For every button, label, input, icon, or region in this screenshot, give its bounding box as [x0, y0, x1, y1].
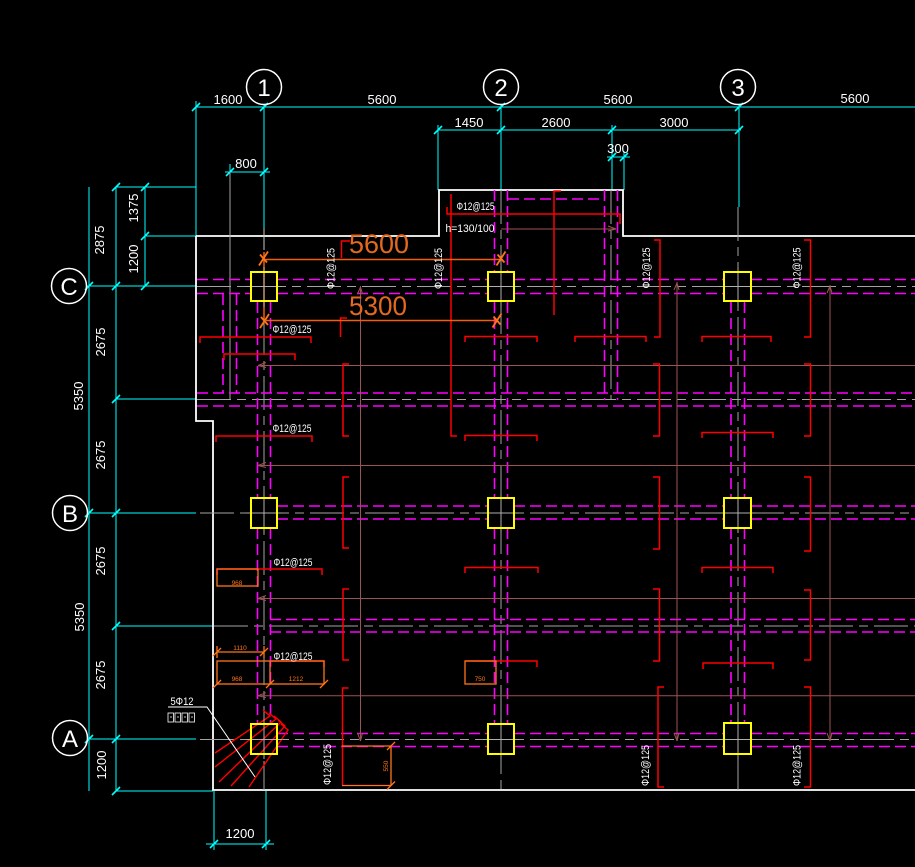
svg-text:1200: 1200	[94, 751, 109, 780]
resistor bracket C 660	[654, 240, 660, 337]
svg-text:2675: 2675	[93, 441, 108, 470]
node axis circle 2	[484, 70, 519, 105]
diode hat g3 663	[703, 663, 773, 669]
node axis circle A	[53, 721, 88, 756]
svg-text:h=130/100: h=130/100	[446, 223, 495, 235]
wire grid A line	[87, 738, 196, 740]
capacitor rect1	[217, 569, 258, 586]
node beam grid1 left	[257, 302, 259, 724]
resistor bracket mid1 343	[343, 364, 349, 436]
wire maroon v1	[360, 286, 362, 741]
wire red vertical 451	[451, 194, 457, 436]
wire 300 dim line	[607, 156, 630, 158]
wire second dim line	[438, 129, 741, 131]
red rebar symbols	[200, 191, 811, 787]
resistor bracket mid2 659	[653, 589, 660, 661]
diode hat 661	[270, 661, 324, 667]
wire grid B line	[87, 512, 196, 514]
node column B1	[251, 498, 277, 528]
node beam grid3 left	[730, 302, 732, 723]
wire left tick mid1	[116, 398, 196, 400]
svg-text:2675: 2675	[93, 661, 108, 690]
wire 800 dim line	[225, 171, 270, 173]
node X mark b	[497, 252, 506, 266]
node center line beam610	[610, 190, 612, 400]
svg-text:3: 3	[731, 75, 744, 102]
node center line B	[200, 512, 915, 514]
diode hat g2 336	[465, 337, 537, 343]
wire grid 3 extension	[738, 104, 740, 207]
wire extension x438	[437, 125, 439, 190]
node cjk chars	[168, 713, 195, 722]
svg-text:Φ12@125: Φ12@125	[273, 423, 312, 435]
node column C3	[724, 272, 751, 301]
node axis circle 3	[721, 70, 756, 105]
svg-text:550: 550	[383, 760, 390, 771]
node column A2	[488, 724, 514, 754]
node beam grid2 left	[494, 190, 496, 724]
resistor bracket A 342	[343, 688, 349, 785]
wire extension x196	[195, 101, 197, 236]
svg-text:1600: 1600	[214, 92, 243, 107]
wire extension x230	[229, 164, 231, 176]
node center line grid1	[263, 321, 265, 790]
svg-text:2675: 2675	[93, 328, 108, 357]
dimension lines cyan	[86, 101, 915, 850]
wire grid1 drop	[263, 252, 265, 321]
capacitor square 550	[342, 742, 395, 790]
node column C1	[251, 272, 277, 301]
wire bottom 1200 dim line	[206, 843, 274, 845]
dimension ticks	[85, 103, 743, 848]
node center line C	[197, 286, 915, 288]
svg-text:Φ12@125: Φ12@125	[326, 248, 338, 289]
capacitor rect2	[217, 661, 324, 684]
node beam B bottom	[277, 518, 915, 520]
svg-text:Φ12@125: Φ12@125	[792, 745, 804, 786]
capacitor rect3	[465, 661, 496, 684]
diode hat g3 336	[702, 337, 771, 343]
node beam 610 left	[604, 190, 606, 400]
wire maroon v2	[676, 282, 678, 741]
svg-text:1200: 1200	[126, 245, 141, 274]
svg-text:1200: 1200	[226, 826, 255, 841]
svg-text:Φ12@125: Φ12@125	[792, 248, 804, 289]
wire extension x612	[611, 125, 613, 190]
node beam grid1 right	[270, 302, 272, 724]
resistor bracket C 810	[804, 240, 811, 337]
node beam 610 right	[617, 190, 619, 400]
wire grid C line	[86, 285, 197, 287]
svg-text:C: C	[60, 274, 77, 301]
node center line grid2	[500, 190, 502, 790]
node column center crosses	[246, 267, 756, 759]
resistor bracket mid2 810	[804, 590, 811, 660]
node beam mid2 bottom	[270, 631, 915, 633]
white rebar labels	[171, 201, 804, 786]
node center line grid3	[737, 207, 739, 790]
wire left dim line x89	[88, 187, 90, 791]
node beam C top	[197, 279, 915, 281]
node beam C bottom	[197, 293, 915, 295]
node axis circle C	[52, 269, 87, 304]
wire left dim line x145	[144, 187, 146, 286]
node beam 230 right	[236, 294, 238, 393]
node center line beam230	[229, 172, 231, 400]
slab outline	[196, 190, 915, 790]
svg-text:Φ12@125: Φ12@125	[457, 201, 495, 213]
wire maroon h1	[258, 365, 915, 367]
svg-text:Φ12@125: Φ12@125	[274, 557, 313, 569]
svg-text:750: 750	[475, 676, 486, 683]
wire maroon h3	[258, 598, 915, 600]
maroon distribution lines	[258, 226, 915, 741]
node rect2 arrows	[213, 680, 328, 688]
svg-text:5350: 5350	[71, 382, 86, 411]
wire slab outline	[196, 190, 915, 790]
diode hat g3 432	[702, 433, 773, 439]
node beam A top	[277, 733, 915, 735]
resistor bracket B 343	[343, 477, 349, 548]
wire left tick 2875 top	[116, 186, 196, 188]
svg-text:5Φ12: 5Φ12	[171, 696, 194, 708]
node X mark a	[259, 252, 268, 266]
dimension texts	[71, 91, 869, 841]
svg-text:Φ12@125: Φ12@125	[433, 248, 445, 289]
svg-text:800: 800	[235, 156, 257, 171]
svg-text:Φ12@125: Φ12@125	[640, 745, 652, 786]
diode hat g2 435	[465, 436, 537, 442]
wire extension x624	[623, 151, 625, 190]
wire maroon bump	[501, 228, 616, 230]
capacitor gamma 5300	[341, 318, 348, 337]
node column A1	[251, 724, 277, 754]
wire maroon v3	[829, 285, 831, 741]
svg-text:2: 2	[494, 75, 507, 102]
svg-text:300: 300	[607, 141, 629, 156]
svg-text:968: 968	[232, 676, 243, 683]
node beam B top	[277, 505, 915, 507]
svg-text:5600: 5600	[368, 92, 397, 107]
node beam grid3 right	[744, 302, 746, 723]
wire red bump corner	[554, 191, 561, 315]
capacitor dim 1110	[213, 646, 268, 658]
svg-text:Φ12@125: Φ12@125	[641, 248, 653, 289]
resistor bracket A 810	[804, 687, 811, 787]
svg-text:Φ12@125: Φ12@125	[322, 744, 334, 785]
wire 5300 line	[266, 320, 497, 322]
grid bubbles	[52, 70, 756, 756]
svg-text:2875: 2875	[92, 226, 107, 255]
wire red bump line	[447, 207, 620, 224]
resistor bracket B 659	[653, 477, 660, 549]
svg-text:5600: 5600	[841, 91, 870, 106]
wire left tick 1375	[145, 235, 196, 237]
svg-text:5600: 5600	[604, 92, 633, 107]
node beam grid2 right	[507, 190, 509, 724]
transistor corner fan	[215, 710, 288, 787]
node X mark c	[260, 314, 269, 328]
capacitor gamma 5600	[342, 241, 351, 258]
diode hat 354	[224, 354, 295, 360]
node column A3	[724, 723, 751, 754]
diode hat b610 336	[575, 337, 646, 343]
svg-text:1: 1	[257, 75, 270, 102]
node beam mid2 top	[270, 619, 915, 621]
wire left tick bottom	[116, 790, 213, 792]
svg-text:5600: 5600	[349, 229, 409, 259]
node beam A bottom	[277, 746, 915, 748]
node axis circle 1	[247, 70, 282, 105]
wire top dim line	[196, 106, 915, 108]
svg-text:1450: 1450	[455, 115, 484, 130]
node column B2	[488, 498, 514, 528]
wire bottom extension x214	[213, 791, 215, 850]
node beam 230 left	[222, 294, 224, 393]
node center line A	[200, 739, 915, 741]
svg-text:B: B	[62, 501, 78, 528]
resistor bracket mid1 810	[804, 364, 811, 436]
capacitor rect2 divider	[269, 661, 271, 684]
svg-text:A: A	[62, 726, 78, 753]
svg-text:1375: 1375	[126, 194, 141, 223]
svg-text:2675: 2675	[93, 547, 108, 576]
svg-text:5300: 5300	[349, 291, 407, 321]
node beam mid1 top	[197, 392, 915, 394]
diode hat g2 661	[465, 661, 537, 667]
svg-text:1212: 1212	[289, 676, 304, 683]
wire grid 1 extension	[263, 104, 265, 228]
node maroon arrows	[258, 363, 266, 698]
diode hat g2 567	[465, 568, 538, 574]
diode hat 569	[217, 569, 322, 575]
svg-text:5350: 5350	[72, 603, 87, 632]
diode hat g3 567	[702, 568, 773, 574]
wire leader 5f12	[168, 707, 255, 777]
node beam mid1 bottom	[197, 405, 915, 407]
svg-text:Φ12@125: Φ12@125	[274, 651, 313, 663]
diode hat 337	[200, 337, 311, 343]
node column B3	[724, 498, 751, 528]
node axis circle B	[53, 496, 88, 531]
node column C2	[488, 272, 514, 301]
wire 5600 line	[264, 259, 501, 261]
svg-text:968: 968	[232, 580, 243, 587]
svg-text:1110: 1110	[233, 645, 247, 652]
node beam bump	[508, 198, 605, 200]
resistor bracket mid2 343	[343, 589, 349, 660]
resistor bracket B 810	[804, 477, 811, 551]
node X mark d	[493, 314, 502, 328]
svg-text:Φ12@125: Φ12@125	[273, 324, 312, 336]
wire grid 2 extension	[500, 104, 502, 190]
svg-text:3000: 3000	[660, 115, 689, 130]
svg-text:2600: 2600	[542, 115, 571, 130]
wire left dim line x116	[115, 187, 117, 791]
orange annotation	[264, 252, 501, 321]
wire left tick mid2	[116, 625, 213, 627]
wire bottom extension x266	[265, 791, 267, 850]
resistor bracket A 658	[658, 687, 664, 787]
wire maroon h2	[258, 465, 915, 467]
grey center lines	[197, 190, 915, 790]
diode hat 437	[216, 436, 312, 442]
magenta beam lines	[197, 190, 915, 747]
node center line mid2	[214, 625, 915, 627]
wire maroon h4	[258, 695, 915, 697]
node center line mid1	[197, 399, 915, 401]
resistor bracket mid1 659	[653, 364, 660, 436]
node center line grid1 upper	[263, 228, 265, 250]
columns yellow	[251, 272, 751, 754]
